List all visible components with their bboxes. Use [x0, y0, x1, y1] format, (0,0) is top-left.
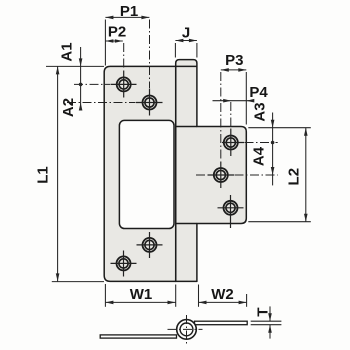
arrowheads [56, 16, 308, 333]
svg-text:W1: W1 [130, 286, 153, 303]
A3 A4 junction dot [271, 141, 275, 145]
hole H3 lower second [143, 238, 157, 252]
dim W2 right extension [246, 294, 248, 307]
hole H5 centerlines [230, 102, 232, 128]
P2 arrows [105, 39, 113, 43]
dim L2 line [305, 128, 307, 222]
svg-text:A1: A1 [59, 42, 76, 61]
hinge center column and right leaf silhouette [176, 60, 247, 282]
fold line: left leaf top edge crossing knuckle [176, 65, 197, 67]
J arrows [175, 39, 183, 43]
svg-text:P1: P1 [120, 3, 138, 20]
svg-text:A3: A3 [252, 102, 269, 121]
hole H1 top-left [117, 77, 131, 91]
svg-text:L1: L1 [35, 166, 52, 184]
svg-text:P2: P2 [108, 24, 126, 41]
hole H7 crosshair [230, 195, 232, 228]
left leaf [104, 66, 176, 281]
hole H7 right-leaf bottom [224, 201, 238, 215]
right leaf top edge extension [248, 127, 310, 129]
A1 arrow down [79, 58, 83, 66]
svg-text:J: J [182, 25, 190, 42]
P4 arrow right [223, 99, 231, 103]
hole H1 centerlines [123, 43, 125, 70]
hole H5 right-leaf top [224, 136, 238, 150]
A2 arrow up [79, 103, 83, 111]
dim P1 line [105, 16, 149, 18]
hole H6 right-leaf middle [214, 168, 228, 182]
dim P3 right extension [245, 72, 247, 125]
svg-text:P4: P4 [249, 84, 268, 101]
dim P3 line [221, 69, 247, 71]
hole H2 upper second [143, 96, 157, 110]
cutout window in left leaf [119, 120, 174, 228]
dim W2 left extension [198, 285, 200, 307]
hole H6 centerlines [220, 72, 222, 161]
side view right leaf plate [195, 321, 248, 325]
dim A3 A4 chain line [272, 113, 274, 186]
side view pin inner circle [180, 323, 193, 336]
P1 arrows [105, 16, 113, 20]
dim A1 A2 chain line [80, 47, 82, 110]
A3 arrow down [271, 120, 275, 128]
hole H3 crosshair [149, 232, 151, 258]
hole H4 crosshair [123, 251, 125, 277]
L2 arrow up [304, 128, 308, 136]
dim T extensions [251, 320, 282, 322]
dim J right extension [196, 43, 198, 58]
W2 arrows [199, 301, 207, 305]
fold line: right leaf bottom edge crossing column [176, 223, 197, 225]
P4 arrow left [246, 99, 254, 103]
svg-text:P3: P3 [225, 52, 243, 69]
dim W1 right extension [175, 285, 177, 307]
right leaf bottom edge extension [248, 221, 310, 223]
dim T arrow tails [269, 306, 271, 321]
hole H2 centerlines [149, 20, 151, 89]
svg-text:W2: W2 [211, 286, 234, 303]
dim W2 line [199, 301, 247, 303]
svg-text:L2: L2 [285, 168, 302, 186]
dim J left extension [174, 43, 176, 58]
dim P1 left extension [104, 20, 106, 66]
W1 arrows [105, 301, 113, 305]
L2 arrow down [304, 214, 308, 222]
dim W1 left extension [104, 284, 106, 307]
svg-text:A4: A4 [251, 146, 268, 166]
fold line: right leaf top edge crossing column [176, 126, 197, 128]
A4 arrow down [271, 167, 275, 175]
svg-text:T: T [255, 307, 272, 316]
side view knuckle centerlines [186, 315, 188, 345]
dim J line [175, 40, 197, 42]
P3 arrows [221, 68, 229, 72]
T arrow down [268, 313, 272, 321]
top edge extension left [46, 65, 104, 67]
dim W1 line [105, 301, 175, 303]
hole H4 bottom-left [117, 256, 131, 270]
bottom edge extension left [52, 281, 104, 283]
side view left leaf plate [100, 335, 176, 338]
svg-text:A2: A2 [60, 98, 77, 117]
A1 A2 junction dot [79, 83, 83, 87]
side view knuckle outer circle [177, 320, 197, 340]
L1 arrow down [56, 273, 60, 281]
dim P4 line [213, 100, 253, 102]
T arrow up [268, 325, 272, 333]
L1 arrow up [56, 66, 60, 74]
dim P2 line [105, 40, 122, 42]
dim L1 line [57, 66, 59, 281]
